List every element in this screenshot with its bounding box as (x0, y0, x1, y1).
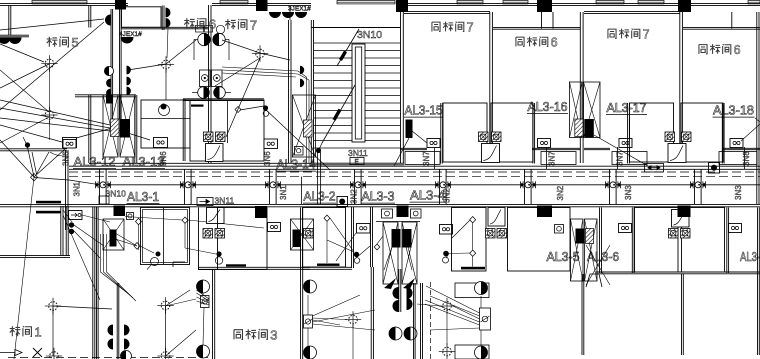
stair bottom wall (311, 163, 404, 165)
wire net room5 (0, 19, 104, 30)
corridor top line (69, 165, 760, 167)
sliver diamond (182, 217, 188, 223)
panel AL3-12 black bar (120, 119, 130, 138)
room1 light b (157, 297, 173, 313)
shaft AL3-1 crossed (103, 219, 124, 250)
top rooms bottom wall left (89, 162, 311, 164)
exhaust fan A u2 (665, 132, 675, 142)
socket bath5 right (154, 138, 168, 148)
shaft 12 hatch (111, 119, 120, 137)
wire net room6-7 (128, 64, 166, 70)
room7 ceiling light (252, 45, 268, 61)
damper pair room6|7 (198, 33, 210, 45)
room1 bath inner wall (163, 208, 165, 265)
b34 lamps a (393, 287, 399, 299)
svg-text:7: 7 (643, 28, 650, 42)
entry wall u1b (532, 148, 580, 149)
wall room5|6 unit top seg (89, 5, 91, 28)
top-left wall step vertical (9, 5, 11, 35)
svg-text:3N8: 3N8 (742, 151, 751, 166)
u5 room2 outline (508, 208, 571, 272)
svg-text:AL3-15: AL3-15 (405, 103, 443, 118)
u3 bath left wall (198, 208, 200, 271)
window top-left (32, 1, 87, 4)
junction dot room5 (25, 142, 30, 147)
outlet boxes party wall (200, 70, 211, 87)
u3 connector left (201, 296, 210, 308)
svg-text:6: 6 (551, 36, 558, 50)
u5 node diamond2 (470, 250, 476, 256)
column C2 (256, 0, 268, 11)
shaft 12 black top bar (106, 95, 113, 104)
shaft 14 crossed (293, 95, 316, 157)
u4 wall right (371, 267, 373, 359)
b34 wedge right (403, 278, 415, 289)
u4 dot (354, 252, 359, 257)
svg-text:AL3-: AL3- (740, 249, 760, 264)
corridor wall stub 5 (440, 170, 447, 205)
wall bath56 left (135, 95, 137, 163)
panel b34 black right (403, 229, 412, 248)
socket u2 left (619, 139, 632, 148)
bath67 fan B (216, 132, 226, 142)
u1b entry rect (541, 152, 576, 165)
shaft AL3-6 upper crossed (571, 219, 584, 281)
u5 fan B (497, 229, 507, 239)
u3 lamps right wall (304, 280, 317, 293)
lamp pair room6|7 lower (198, 87, 210, 99)
u5 box circle (555, 225, 564, 234)
bath67 duct door (206, 144, 224, 162)
socket bath7 (264, 139, 278, 149)
wall right edge top (757, 12, 759, 204)
duct door u1 (482, 144, 500, 163)
window u1 left (457, 1, 483, 4)
corridor bottom wall (0, 204, 760, 206)
bathroom A outline u1 (443, 103, 487, 162)
corridor wall stub 8 (695, 170, 702, 205)
corridor wall stub 4 (355, 170, 362, 205)
panel AL3-15 wall (441, 103, 443, 164)
shaft u2 crossed box right (584, 82, 601, 138)
u3 fan B (215, 229, 225, 239)
room5 ceiling light b (41, 107, 57, 123)
top-left room5 side wall (0, 35, 29, 37)
u5 dot (443, 251, 449, 257)
wall bath top (75, 95, 136, 97)
u6 wall down right (682, 274, 684, 355)
svg-text:AL3-4: AL3-4 (410, 188, 445, 203)
svg-text:AL3-1: AL3-1 (127, 189, 159, 204)
svg-text:AL3-13: AL3-13 (123, 154, 165, 169)
u6 trapezoid (586, 274, 602, 287)
u3 socket (268, 223, 281, 232)
panel AL3-6 black bar (576, 229, 585, 244)
u5 node diamond (470, 217, 476, 223)
arrow bottom left (0, 352, 22, 354)
b34 black col (397, 206, 409, 218)
u3 lamps left wall (197, 280, 210, 293)
top exterior wall mid (212, 4, 311, 6)
window stair top (337, 1, 395, 4)
bottom room b light b (439, 343, 455, 359)
bottom room b wall (421, 283, 423, 359)
room5 bottom wall (0, 149, 67, 151)
svg-text:3N6: 3N6 (263, 151, 272, 166)
u6 fan B (681, 229, 691, 239)
wall room7 right (289, 20, 292, 163)
party wall u3 right (301, 208, 303, 359)
window room7 top (220, 1, 248, 4)
u3 light (345, 311, 361, 327)
socket u1 right (538, 139, 551, 148)
room6a niche wall (541, 12, 543, 29)
b34 halfc b (404, 327, 417, 340)
room1 light a (45, 298, 61, 314)
u6 wall mid (632, 208, 634, 274)
wire AL3-15 panel (412, 131, 427, 143)
stair steps (314, 42, 400, 44)
column C5 (678, 0, 691, 12)
room6 niche wire (167, 28, 168, 58)
u6 fan A (669, 229, 679, 239)
bathroom B outline u2 (681, 103, 723, 162)
lamp room7 top a (269, 12, 281, 18)
corridor wall stub 1 (100, 170, 107, 205)
corridor top line2 (69, 168, 760, 170)
shaft 12 crossed right (120, 95, 135, 157)
bottom room b lamp top (455, 283, 489, 298)
exhaust fan B u1 (492, 132, 502, 142)
b34 lamps b (407, 287, 413, 299)
bath56 block outline (141, 100, 190, 148)
socket above corridor left (63, 140, 76, 149)
svg-text:3N3: 3N3 (734, 185, 743, 200)
shaft u2 crossed box left (570, 82, 583, 138)
corridor wall stub 3 (270, 170, 277, 205)
party wall room1|3 (93, 207, 95, 359)
column C1 (115, 0, 126, 10)
exhaust fan B u2 (682, 132, 692, 142)
room7b top wall (584, 12, 680, 14)
socket u2 right (730, 139, 743, 148)
label room3 name (234, 328, 277, 343)
socket bath5 left (63, 138, 77, 148)
b34 walls down (399, 269, 401, 312)
room6b top wall (683, 28, 760, 30)
room1 wires (52, 306, 54, 356)
room5 ceiling light a (41, 55, 57, 71)
corridor junction J6 (520, 181, 536, 188)
u4 wires (326, 222, 328, 264)
room7a top wall (404, 12, 490, 14)
room6 niche rect (122, 7, 162, 28)
u3 bottom wall (198, 267, 310, 269)
svg-text:7: 7 (250, 18, 257, 33)
svg-text:6: 6 (209, 17, 216, 32)
bath67 inner dot (263, 105, 268, 110)
lamps stair gap (300, 66, 304, 74)
u3 fan C (304, 229, 314, 239)
u4 service wall a (352, 207, 354, 268)
exhaust fan A u1 (479, 132, 489, 142)
bed bars room1 (36, 201, 61, 204)
svg-text:AL3-16: AL3-16 (528, 99, 568, 114)
svg-text:AL3-17: AL3-17 (607, 100, 647, 115)
u4 towel bar (317, 264, 340, 266)
corridor junction J5 (435, 181, 451, 188)
room6a top wall (493, 28, 580, 30)
lamp wall room1 area (117, 283, 119, 359)
shaft AL3-2 crossed (291, 219, 314, 250)
stair top wall (311, 27, 400, 29)
sliver dot (216, 251, 221, 256)
top exterior wall left (0, 4, 128, 6)
stair handrail (352, 44, 365, 142)
party wall top boxes (196, 26, 204, 33)
bath67 block outline (190, 100, 264, 161)
u3 fan A (203, 229, 213, 239)
wire stair to corridor (317, 152, 319, 204)
svg-text:AL3-12: AL3-12 (74, 154, 116, 169)
bath56 inner wall (141, 118, 190, 120)
svg-text:3N3: 3N3 (624, 185, 633, 200)
panel AL3-2 black bar (293, 230, 302, 248)
u6 duct door (672, 210, 690, 228)
u4 socket (357, 224, 371, 234)
corridor junction J4 (350, 181, 366, 188)
wall room7 right top seg (289, 6, 291, 21)
wire V left (32, 152, 37, 174)
label room6 name (184, 17, 216, 32)
room1 bath wires (82, 215, 110, 222)
bath67 block outer walls (183, 99, 264, 101)
u3 connector right (304, 315, 313, 328)
arrow box 3N11 (197, 198, 213, 206)
duct door u2 (668, 144, 686, 163)
b34 frame line (376, 221, 420, 223)
room1 bath dots (69, 222, 74, 227)
bath wall u2a (628, 103, 630, 164)
corridor box arrows (645, 164, 664, 173)
u5 socket (440, 225, 453, 235)
bath67 fan A (204, 132, 214, 142)
u5 fan A (486, 229, 496, 239)
shaft b34 right crossed (402, 222, 417, 284)
party wall room6|7 (209, 5, 212, 163)
socket AL3-15 (427, 139, 440, 148)
b34 box right (411, 209, 422, 218)
u4 room outline (303, 208, 346, 268)
window u2 left (596, 1, 624, 4)
window far right (748, 1, 760, 4)
door circle dot (159, 105, 170, 116)
column C3 (396, 0, 408, 12)
label u1a name (432, 21, 474, 35)
lamp room7 top c (295, 12, 307, 18)
b34 wall down2 (414, 283, 416, 359)
shaft b34 left crossed (383, 222, 398, 284)
u6 bottom wall (596, 272, 760, 274)
u1 entry wall left (400, 148, 427, 149)
room6 top wall (122, 27, 209, 29)
party wall u3 left (213, 270, 215, 359)
u4 diamond2 (374, 244, 380, 250)
svg-text:4JEX1#: 4JEX1# (119, 31, 142, 38)
bath67 towel bar (191, 105, 204, 107)
label u1b name (516, 36, 558, 50)
lamps wall mid stack left (104, 66, 113, 75)
svg-text:3N1: 3N1 (279, 185, 288, 200)
room1 wall horiz (0, 255, 70, 257)
panel AL3-1 side box (127, 213, 134, 220)
bottom room b wires (426, 286, 480, 313)
u3 wires left (197, 290, 210, 299)
panel b34 black left (392, 229, 401, 248)
bathroom B outline u1 (491, 103, 533, 162)
wall room5 bath right (89, 95, 91, 163)
svg-text:3N10: 3N10 (357, 29, 382, 41)
u5 black col (537, 206, 552, 218)
corridor stub boxes left (99, 196, 109, 204)
u5 duct door (488, 208, 505, 227)
panel AL3-1 black bar (110, 230, 117, 247)
svg-text:3N1: 3N1 (73, 181, 82, 196)
u6 black col (678, 206, 691, 218)
u6 bath left outline (635, 208, 679, 273)
wall u1|u2 boundary (580, 12, 583, 163)
u6 socket left (619, 224, 632, 233)
u4 service wall b (371, 207, 373, 267)
room1 shower (156, 252, 161, 257)
svg-text:AL3-18: AL3-18 (713, 103, 754, 118)
b34 wire (384, 247, 392, 270)
panel AL3-17 black bar (584, 119, 594, 138)
label room7 name (225, 18, 257, 33)
node diamond room7 (235, 107, 241, 113)
corridor junction J7 (605, 181, 621, 188)
box E stair (350, 158, 364, 165)
shaft u2 wire (594, 135, 648, 166)
shaft u2 hatch (575, 119, 583, 137)
svg-text:7: 7 (467, 21, 474, 35)
u6 wall right edge (758, 208, 760, 356)
room1 bath diamond2 (136, 218, 142, 224)
corridor junction J8 (690, 181, 706, 188)
u3 bath main outline (218, 208, 268, 270)
u6 wall left (600, 208, 602, 274)
svg-text:3N7: 3N7 (548, 151, 557, 166)
u3 wires right (313, 318, 348, 320)
u4 bottom wall (302, 267, 352, 269)
svg-text:3N2: 3N2 (556, 185, 565, 200)
right edge wire (741, 124, 760, 141)
svg-text:3JEX1#: 3JEX1# (288, 6, 311, 13)
corridor wall stub 7 (610, 170, 617, 205)
u6 wall down left (582, 274, 584, 355)
u5 wires (472, 223, 474, 250)
wall u2 party (680, 12, 683, 163)
b34 halfc a (389, 327, 402, 340)
dashed line bottom left (8, 357, 210, 359)
lamp row room5 wall b (9, 38, 22, 45)
label room1 name (10, 325, 42, 340)
bottom room b light a (439, 298, 455, 314)
svg-text:3N10: 3N10 (106, 189, 127, 199)
window u2 right (638, 1, 664, 4)
panel AL3-1 box black (114, 206, 126, 217)
shaft AL3-6 x lower (586, 245, 610, 285)
top exterior wall right (404, 4, 760, 6)
node diamond room5 (31, 174, 38, 181)
bath67 inner wall (227, 100, 229, 143)
corridor junction J3 (265, 181, 281, 188)
u3 black col (255, 206, 267, 218)
svg-text:5: 5 (71, 35, 78, 50)
corridor wall stub 6 (525, 170, 532, 205)
u2b entry rect (719, 152, 757, 165)
lamps wall mid stack right (127, 66, 131, 75)
wall room5/6 boundary upper (111, 9, 113, 119)
stair arrow lower (322, 85, 355, 143)
u1 entry rect (405, 152, 440, 165)
u6 bath right outline (682, 208, 725, 273)
u3 towel bar (226, 264, 246, 266)
shaft 14 box (295, 147, 304, 156)
entry wall u2b (722, 148, 760, 149)
wall room5/6 boundary inner (120, 9, 122, 119)
svg-text:3N7: 3N7 (616, 151, 625, 166)
corridor dashed line a (69, 171, 760, 173)
u1 entry stub (434, 147, 436, 169)
room1 bath socket (69, 211, 83, 220)
room6b niche wall (731, 12, 733, 29)
svg-text:AL3-3: AL3-3 (362, 189, 395, 204)
svg-text:1: 1 (34, 325, 41, 340)
label u2a name (608, 28, 650, 42)
room1 wall vert (61, 206, 63, 256)
bath wall u2b (722, 103, 724, 164)
u4 box dot corridor (337, 197, 348, 207)
label u2b name (699, 43, 741, 57)
u2a entry rect (612, 152, 647, 165)
shaft 12 crossed left (103, 95, 118, 157)
svg-text:3N2: 3N2 (350, 189, 359, 204)
corridor wall stub 2 (185, 170, 192, 205)
corridor stub u3wall (301, 177, 303, 205)
u4 node diamond (324, 215, 330, 221)
corridor box dot right (709, 163, 720, 174)
bottom room b lamp bottom (455, 345, 489, 359)
lamp wall mid a (105, 15, 110, 26)
lamp row room5 wall a (0, 38, 11, 45)
svg-text:3N11: 3N11 (348, 148, 368, 158)
shaft 14 hatch (304, 120, 313, 137)
room1 bath corner (173, 261, 185, 263)
label room5 name (47, 35, 79, 50)
room6 niche wall right (162, 6, 164, 31)
AL3-1 wire bundle (100, 234, 102, 272)
room1 light d (157, 348, 173, 359)
stair left wall (311, 20, 313, 164)
column C4 (537, 0, 552, 12)
lamps room1 wall (108, 325, 113, 336)
shaft AL3-6 hatch (586, 229, 594, 244)
svg-text:3N7: 3N7 (422, 151, 431, 166)
stair right wall (401, 0, 404, 164)
stair junction dot (316, 148, 321, 153)
wall left corridor vert (66, 150, 69, 230)
